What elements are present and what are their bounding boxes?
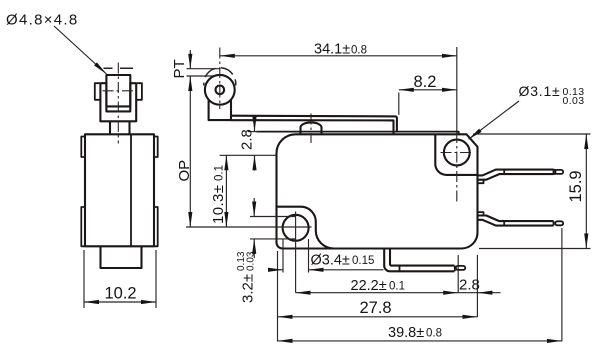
hole TR vertical centerline — [456, 47, 458, 132]
roller front view — [106, 75, 130, 106]
terminal 3 tip — [454, 266, 456, 272]
svg-text:3.2±: 3.2± — [240, 274, 257, 303]
svg-text:0.1: 0.1 — [214, 165, 226, 181]
hole TR horizontal centerline — [441, 152, 474, 154]
dim 10.2 — [84, 250, 156, 308]
dim 34.1±0.8 — [220, 42, 457, 58]
svg-text:10.2: 10.2 — [105, 285, 137, 303]
svg-text:PT: PT — [171, 59, 188, 78]
dim 39.8±0.8 — [278, 228, 562, 342]
bracket side tab left — [95, 83, 101, 100]
boss bottom-left — [277, 207, 334, 249]
terminal 3 (bottom L) — [384, 249, 454, 272]
dim 8.2 — [399, 73, 457, 115]
svg-text:0.8: 0.8 — [426, 328, 442, 340]
body outline — [85, 134, 154, 246]
roller pin — [216, 86, 225, 95]
terminal 3 tick — [399, 266, 401, 272]
terminal 1 (top) — [478, 170, 554, 180]
roller (main view) — [205, 75, 235, 105]
terminal 1 under-step — [478, 180, 484, 183]
svg-text:0.03: 0.03 — [246, 251, 257, 271]
roller bracket inner slot — [106, 83, 130, 111]
body side tab bottom-left — [81, 207, 85, 246]
spring line — [257, 132, 459, 135]
roller free-position dashed line — [104, 67, 134, 69]
svg-text:15.9: 15.9 — [567, 170, 585, 202]
dim 27.8 — [278, 251, 478, 342]
vertical centerline — [117, 63, 119, 144]
svg-text:Ø3.4±: Ø3.4± — [311, 253, 350, 269]
svg-text:27.8: 27.8 — [360, 299, 392, 317]
dim PT — [171, 50, 221, 79]
svg-text:10.3±: 10.3± — [210, 185, 227, 224]
svg-text:39.8±: 39.8± — [388, 325, 424, 341]
terminal 2 tip — [553, 221, 555, 226]
dim 2.8 (lower right) — [458, 255, 500, 317]
lever arm — [231, 116, 397, 134]
svg-text:2.8: 2.8 — [459, 277, 480, 294]
svg-text:0.1: 0.1 — [389, 281, 405, 293]
svg-text:0.15: 0.15 — [352, 255, 374, 267]
hole BL horizontal centerline / OP+10.3 extension — [186, 226, 312, 228]
roller centerline — [219, 48, 221, 110]
dim Ø3.4±0.15 — [268, 239, 384, 273]
hole Ø3.4 bottom-left — [283, 215, 309, 241]
lever bracket — [209, 100, 231, 120]
roller bracket outer — [100, 83, 136, 121]
body parting line — [130, 134, 132, 246]
terminal 2 upper-step — [478, 212, 484, 215]
svg-text:22.2±: 22.2± — [351, 278, 387, 294]
body side tab top-right — [154, 137, 158, 158]
bottom foot — [101, 246, 142, 268]
terminal 2 tick — [503, 221, 505, 226]
svg-text:0.8: 0.8 — [351, 45, 367, 57]
dim 10.3±0.1 — [210, 155, 227, 227]
dim 15.9 — [473, 134, 591, 249]
boss top-right — [435, 134, 477, 175]
leader Ø4.8×4.8 — [6, 12, 107, 75]
svg-text:Ø4.8×4.8: Ø4.8×4.8 — [6, 12, 79, 29]
terminal 1 tip — [554, 170, 557, 175]
body outline — [277, 134, 478, 248]
body side tab bottom-right — [154, 207, 158, 246]
terminal 2 (bottom) — [478, 216, 554, 226]
hole Ø3.1 top-right — [444, 140, 470, 166]
svg-text:OP: OP — [176, 160, 193, 182]
svg-text:8.2: 8.2 — [414, 73, 437, 91]
dim 3.2 +0.13/-0.03 — [236, 198, 296, 303]
svg-text:Ø3.1±: Ø3.1± — [519, 83, 561, 99]
dim OP — [176, 76, 193, 227]
dim 22.2±0.1 — [296, 255, 459, 294]
svg-text:0.03: 0.03 — [563, 95, 585, 107]
bracket side tab right — [136, 83, 142, 100]
terminal 1 tick — [503, 170, 505, 175]
roller horizontal centerline — [103, 90, 135, 92]
plunger centerline — [310, 114, 312, 144]
svg-text:2.8: 2.8 — [239, 129, 256, 150]
dim 2.8 (upper) — [220, 117, 276, 171]
body side tab top-left — [81, 137, 85, 158]
plunger — [301, 122, 322, 134]
plunger stem — [110, 121, 130, 134]
roller phantom arcs (free position) — [204, 68, 236, 86]
leader Ø3.1 +0.13/-0.03 — [469, 83, 585, 139]
svg-text:34.1±: 34.1± — [314, 42, 350, 58]
bracket arm top caps — [100, 82, 136, 84]
hole BL vertical centerline — [295, 212, 297, 293]
